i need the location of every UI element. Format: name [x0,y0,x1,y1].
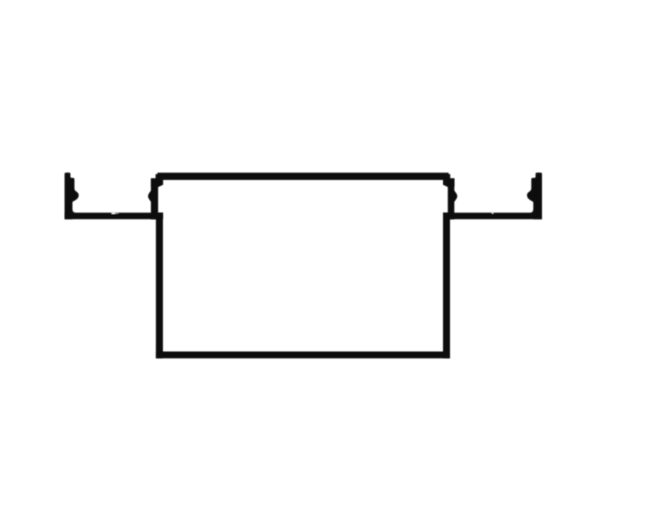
left base break mark gray tail [115,212,118,214]
left box wall [156,213,163,359]
bottom plate [156,352,450,359]
right spring tooth [454,190,457,202]
left end bar [65,173,79,220]
left base break mark [111,212,115,214]
left collar head [151,178,163,187]
top cap end steps [156,174,451,180]
right box wall [443,213,450,359]
right collar head [443,178,455,187]
right collar wall [448,179,455,214]
right flange base [443,213,542,220]
left spring tooth [148,190,151,202]
right junction block [443,213,454,220]
left collar wall [151,179,158,214]
left flange base [65,213,164,220]
left junction block [151,213,163,220]
top cap [157,173,448,180]
right base break mark [491,212,494,214]
right end bar [527,173,542,220]
